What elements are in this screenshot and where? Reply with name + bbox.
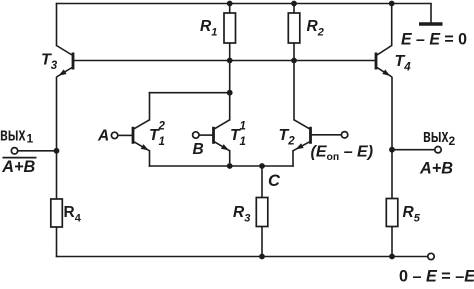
svg-text:0 – E = –E: 0 – E = –E bbox=[399, 266, 474, 285]
wire base bus T3 to T4 (y=60.5) bbox=[74, 60, 376, 62]
resistor R1 bbox=[224, 13, 236, 43]
svg-text:C: C bbox=[268, 172, 281, 190]
svg-text:1: 1 bbox=[240, 136, 246, 148]
svg-text:A+B: A+B bbox=[1, 158, 35, 176]
wire T1-1 collector vertical bbox=[229, 93, 231, 120]
wire left vertical T3 emitter to R4 bbox=[56, 78, 58, 200]
svg-text:1: 1 bbox=[27, 132, 34, 146]
wire output 2 tap bbox=[392, 149, 435, 151]
svg-text:вых: вых bbox=[423, 125, 449, 146]
junction dot output 2 bbox=[389, 147, 395, 153]
wire top rail bbox=[57, 3, 432, 5]
wire R3 bottom lead bbox=[261, 227, 263, 257]
wire T4 collector vertical bbox=[391, 4, 393, 46]
wire T1-2 emitter vertical bbox=[149, 151, 151, 166]
wire T1-2 collector vertical bbox=[149, 93, 151, 120]
terminal output 2 bbox=[435, 147, 441, 153]
junction dot top rail R2 bbox=[291, 1, 297, 7]
svg-text:B: B bbox=[193, 141, 204, 158]
junction dot output 1 bbox=[54, 148, 60, 154]
wire output 1 tap bbox=[18, 150, 57, 152]
wire R1 bottom lead bbox=[229, 43, 231, 61]
label A+B with overline bbox=[1, 158, 36, 176]
svg-text:2: 2 bbox=[158, 121, 166, 133]
transistor T3 bbox=[57, 46, 74, 78]
junction dot bottom rail R3 bbox=[259, 254, 265, 260]
wire R4 bottom lead bbox=[56, 227, 58, 257]
wire R5 bottom lead bbox=[391, 227, 393, 257]
wire R2 bottom lead bbox=[293, 43, 295, 61]
wire from R1 node down to T1 collectors junction bbox=[229, 61, 231, 93]
wire bottom rail bbox=[57, 256, 428, 258]
terminal output 1 bbox=[11, 148, 17, 154]
transistor T1-1 bbox=[199, 120, 230, 151]
junction dot bottom rail R5 bbox=[389, 254, 395, 260]
resistor R5 bbox=[386, 199, 398, 227]
transistor T4 bbox=[376, 46, 392, 78]
resistor R4 bbox=[51, 199, 63, 227]
svg-text:E – E = 0: E – E = 0 bbox=[401, 30, 467, 49]
junction dot top rail T4 collector bbox=[389, 1, 395, 7]
junction dot R1 bottom node bbox=[227, 58, 233, 64]
svg-text:2: 2 bbox=[449, 134, 456, 148]
svg-text:(Eоп – E): (Eоп – E) bbox=[311, 144, 374, 164]
terminal T2 reference input bbox=[341, 132, 347, 138]
svg-text:вых: вых bbox=[0, 124, 26, 145]
svg-text:A+B: A+B bbox=[419, 160, 453, 178]
wire emitter bus to node C bbox=[150, 165, 294, 167]
transistor T1-2 bbox=[118, 120, 150, 151]
wire T1-1 emitter vertical bbox=[229, 151, 231, 166]
wire node C down to R3 bbox=[261, 166, 263, 198]
svg-text:1: 1 bbox=[159, 136, 165, 148]
wire R2 top lead bbox=[293, 4, 295, 14]
terminal A bbox=[111, 132, 117, 138]
wire T2 collector vertical bbox=[293, 61, 295, 120]
junction dot R2 bottom node bbox=[291, 58, 297, 64]
resistor R2 bbox=[288, 13, 300, 43]
terminal B bbox=[193, 132, 199, 138]
junction dot T1-1 emitter on bus bbox=[227, 163, 233, 169]
transistor T2 bbox=[293, 120, 341, 151]
resistor R3 bbox=[256, 198, 268, 227]
junction dot node C bbox=[259, 163, 265, 169]
ground symbol top right bbox=[419, 4, 443, 25]
wire T2 emitter vertical bbox=[292, 151, 294, 166]
terminal bottom rail bbox=[428, 253, 434, 259]
wire R1 top lead bbox=[229, 4, 231, 14]
wire left drop from top rail to T3 collector bbox=[56, 4, 58, 46]
svg-text:1: 1 bbox=[240, 121, 246, 133]
wire T4 emitter vertical to R5 bbox=[391, 78, 393, 199]
wire horizontal to T1-2 collector bbox=[150, 92, 230, 94]
junction dot top rail R1 bbox=[227, 1, 233, 7]
junction dot T1 collector node bbox=[227, 90, 233, 96]
svg-text:A: A bbox=[97, 128, 109, 145]
